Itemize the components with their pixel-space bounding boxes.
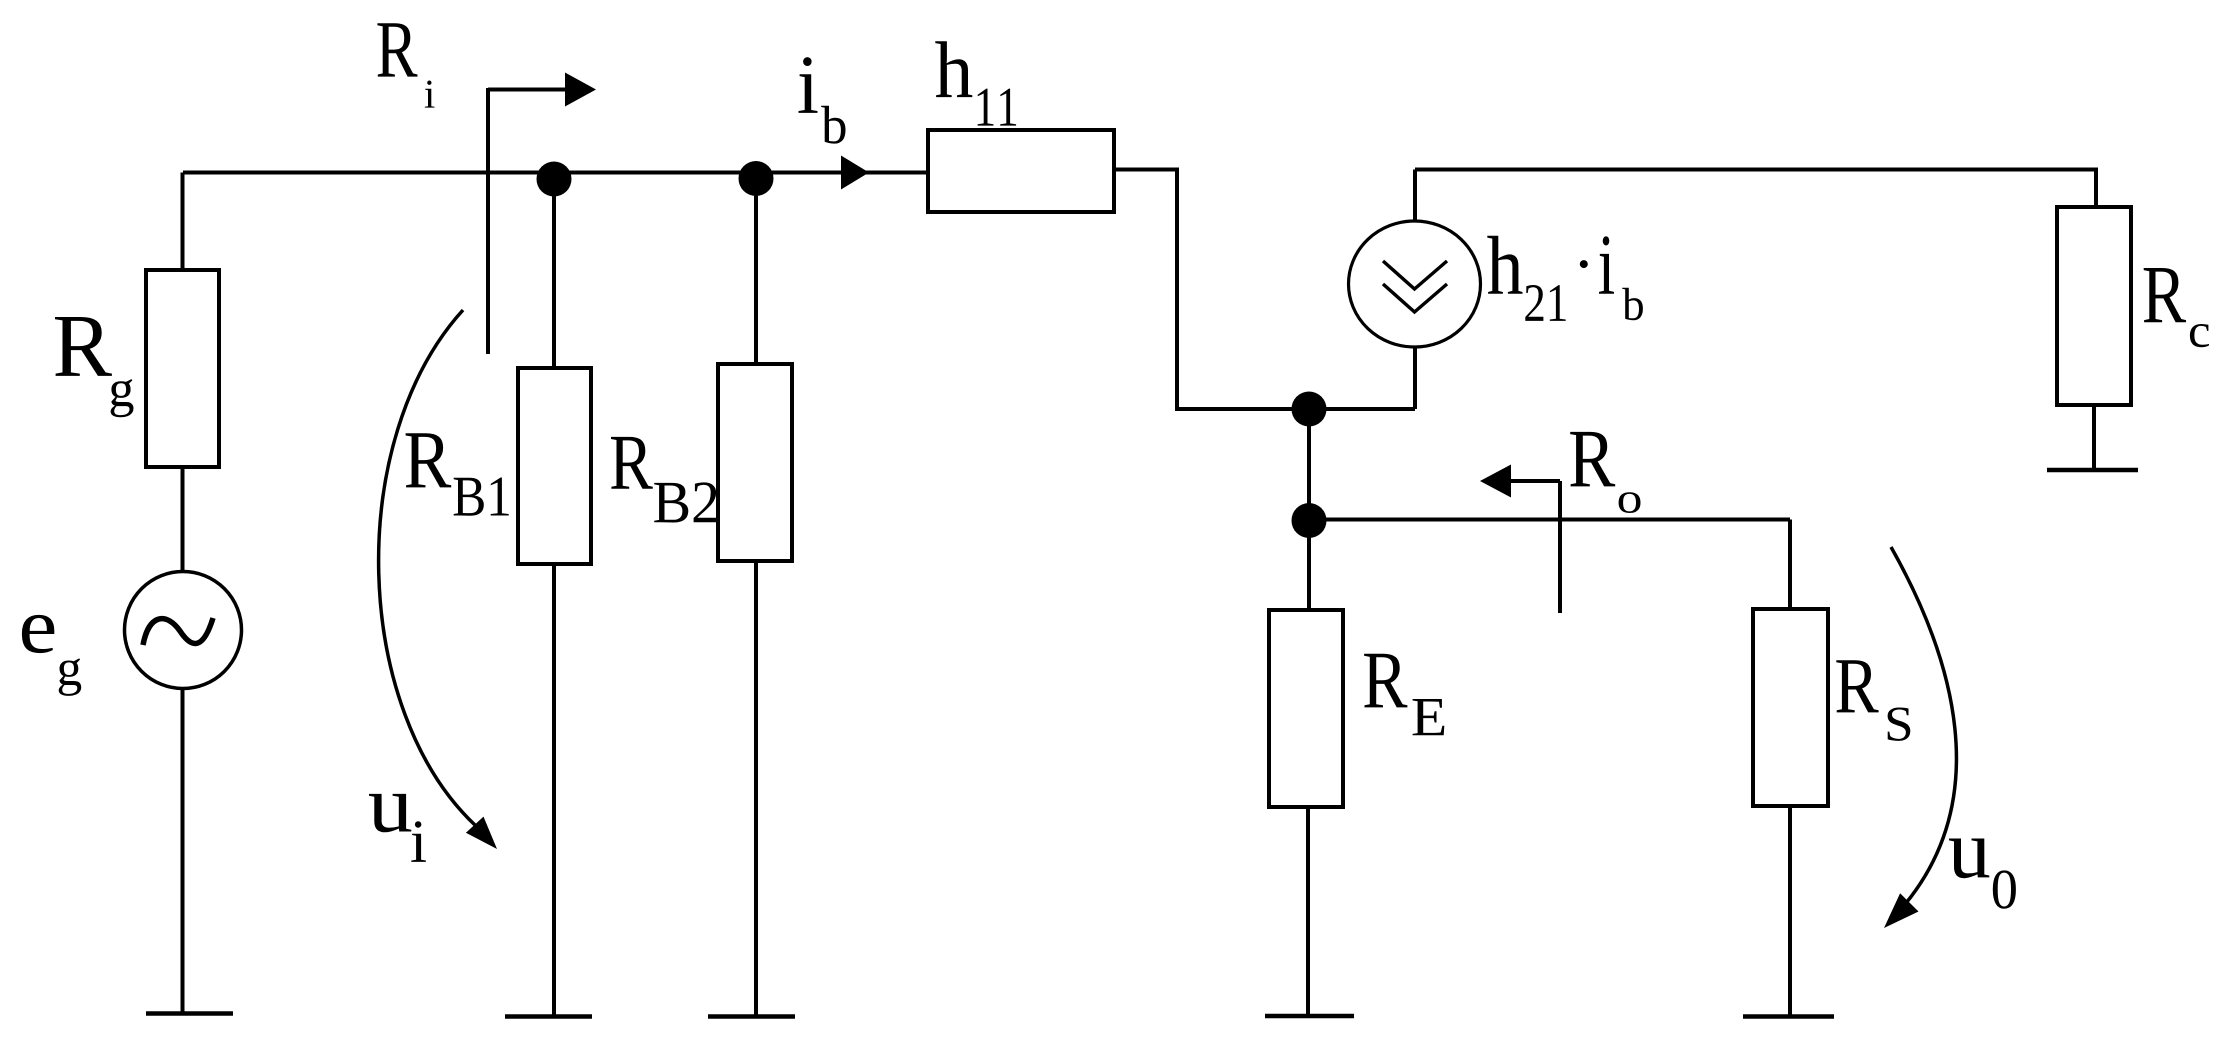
- label ui sub: [411, 821, 426, 862]
- wire Rg top: [181, 173, 185, 273]
- wire RB2 drop: [754, 179, 758, 366]
- label h21 of source: [1487, 236, 1522, 294]
- resistor Rc: [2057, 207, 2131, 405]
- node Ro arrow line: [1505, 479, 1560, 483]
- source h21ib circle: [1349, 221, 1481, 347]
- label u0 sub: [1993, 870, 2016, 908]
- source eg sine: [143, 618, 213, 645]
- node Ri arrow line: [488, 88, 572, 92]
- label b of h21ib sub: [1622, 288, 1643, 321]
- wire source bottom: [1413, 348, 1417, 409]
- label RB1: [406, 433, 452, 487]
- label RS: [1836, 660, 1878, 712]
- arrowhead Ro: [1480, 465, 1511, 498]
- resistor RB1: [518, 368, 591, 564]
- label RB1 sub: [454, 478, 509, 516]
- wire Rc bottom: [2092, 403, 2096, 470]
- wire source top: [1413, 170, 1417, 223]
- node Ri port line: [486, 88, 490, 354]
- label Ro sub: [1619, 492, 1641, 513]
- arrowhead Ri: [565, 73, 596, 107]
- label Rg: [55, 317, 112, 376]
- voltage arc u0: [1889, 547, 1956, 922]
- label ib: [799, 57, 818, 113]
- label RE: [1364, 654, 1407, 708]
- source chevron 2: [1383, 284, 1447, 312]
- resistor h11: [928, 130, 1114, 212]
- node Ro port line: [1558, 481, 1562, 613]
- label i of h21ib: [1599, 236, 1614, 293]
- arrowhead ib: [841, 156, 869, 190]
- label RB2: [611, 437, 653, 489]
- wire main top: [183, 171, 928, 175]
- wire Rg to eg: [181, 465, 185, 572]
- label Rg sub: [111, 379, 134, 417]
- wire node drop: [1307, 409, 1311, 612]
- label h11: [935, 41, 972, 97]
- label RB2 sub: [654, 482, 717, 522]
- wire RB1 drop: [552, 179, 556, 370]
- label eg sub: [59, 658, 81, 696]
- resistor Rg: [146, 270, 219, 467]
- label Rc sub: [2190, 324, 2209, 347]
- resistor RE: [1269, 610, 1343, 807]
- arrowhead ui: [466, 817, 497, 849]
- ground eg: [146, 1011, 233, 1016]
- label Ro: [1570, 432, 1615, 487]
- label Ri sub: [425, 81, 435, 108]
- source chevron 1: [1383, 261, 1447, 289]
- ground RB2: [708, 1014, 795, 1019]
- resistor RB2: [718, 364, 792, 561]
- wire RE bottom: [1306, 805, 1310, 1016]
- wire RB2 bottom: [754, 559, 758, 1017]
- label ib sub: [821, 106, 845, 144]
- resistor RS: [1753, 609, 1828, 806]
- label h11 sub: [978, 89, 1017, 126]
- label u0: [1949, 839, 1989, 879]
- wire RS bottom: [1788, 804, 1792, 1017]
- junction dot B2: [739, 161, 774, 196]
- label h21 sub: [1525, 285, 1565, 321]
- wire RB1 bottom: [552, 562, 556, 1017]
- junction dot E2: [1292, 503, 1327, 538]
- label RS sub: [1888, 708, 1911, 741]
- ground Rc: [2047, 468, 2138, 473]
- wire top right: [1415, 170, 2096, 210]
- label eg: [22, 615, 54, 653]
- ground RS: [1743, 1014, 1834, 1019]
- source eg circle: [125, 572, 242, 689]
- label Rc: [2144, 268, 2186, 322]
- wire out bottom: [1309, 518, 1790, 522]
- junction dot E1: [1292, 392, 1327, 427]
- ground RB1: [505, 1014, 592, 1019]
- junction dot B1: [537, 162, 572, 197]
- label Ri: [377, 23, 417, 76]
- label h21 dot: [1580, 260, 1588, 268]
- voltage arc ui: [379, 310, 476, 826]
- label ui: [369, 794, 411, 832]
- wire h11 right: [1114, 170, 1415, 410]
- wire RS top: [1788, 520, 1792, 612]
- wire eg to ground: [181, 687, 185, 1014]
- arrowhead u0: [1884, 893, 1919, 928]
- ground RE: [1265, 1014, 1354, 1019]
- label RE sub: [1413, 699, 1445, 735]
